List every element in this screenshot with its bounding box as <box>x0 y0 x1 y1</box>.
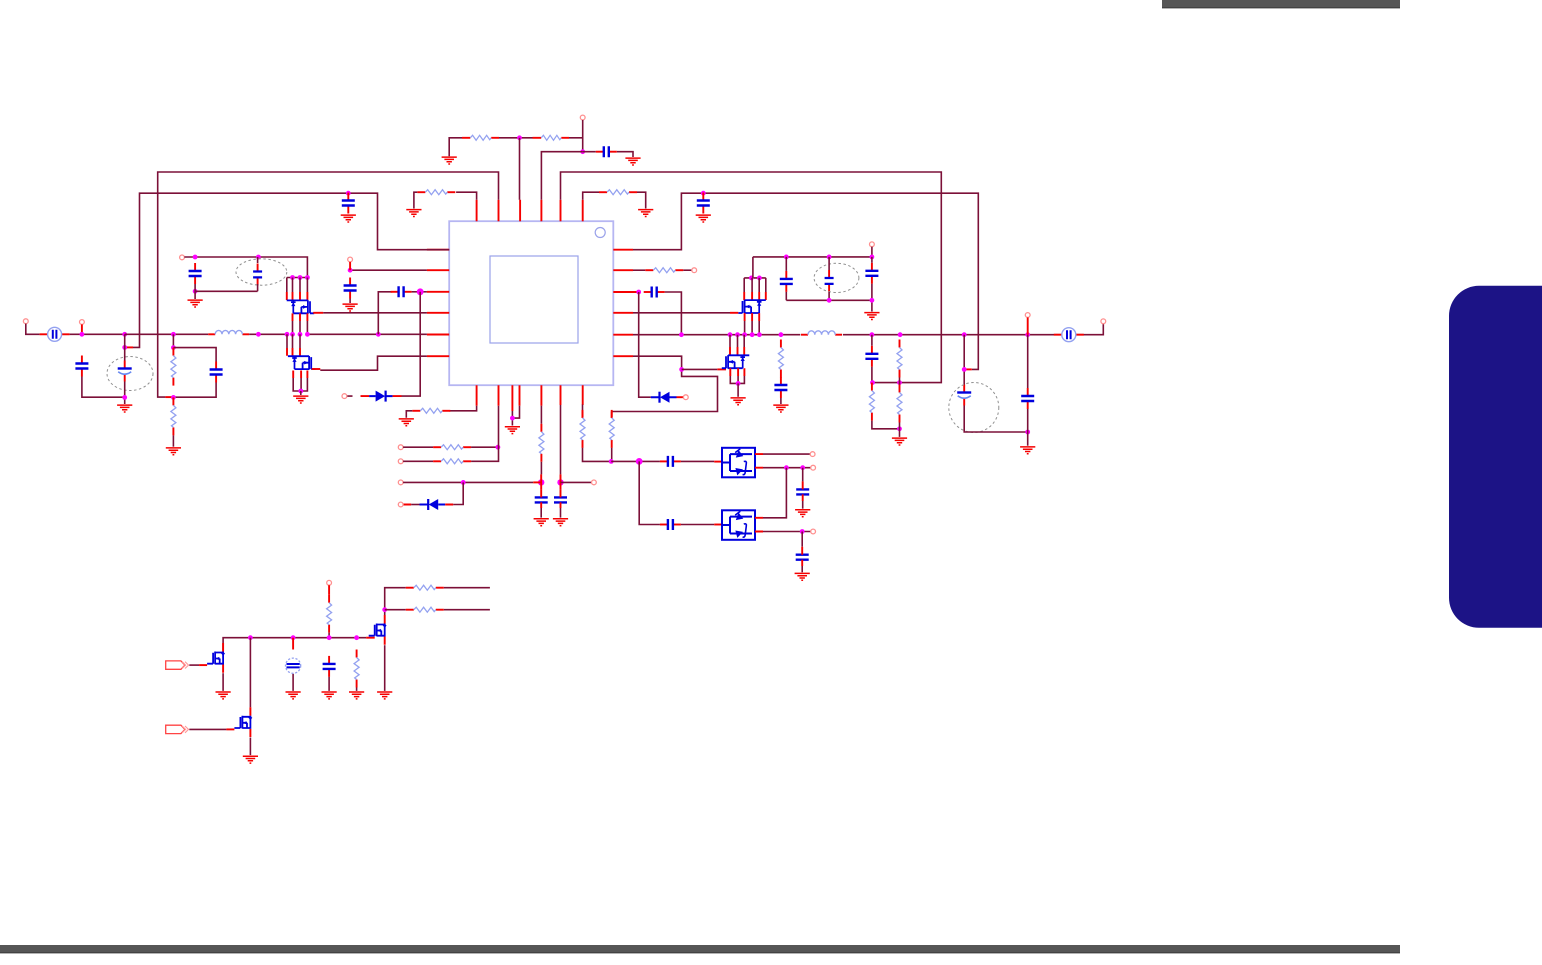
pin stub csym top stub <box>292 638 294 650</box>
wire gate line QHR <box>633 312 730 314</box>
wire bus1 right <box>561 172 942 383</box>
ground G-lowL <box>293 396 308 403</box>
wire pin2R t lead <box>683 269 692 271</box>
resistor R rc2 <box>171 397 176 435</box>
wire bl rail <box>223 638 366 651</box>
pin stub D sense stubs <box>403 504 453 506</box>
pin stub pin2L term lead <box>349 262 351 270</box>
wire x611 link <box>611 448 613 462</box>
wire tr3 leads <box>871 257 873 300</box>
top gray bar <box>1162 0 1400 8</box>
wire pin2L gnd lead <box>349 299 351 304</box>
wire outc2 link <box>1027 409 1029 446</box>
wire gate line QHL <box>323 312 427 314</box>
junction dots tr top <box>784 255 874 260</box>
capacitor C pin2L <box>344 278 357 299</box>
capacitor C pin541 <box>535 497 548 502</box>
wire outcap bottom <box>964 406 1027 433</box>
wire bootL right <box>412 291 427 293</box>
wire lowL gnd drop <box>300 391 302 395</box>
wire pin to cap row <box>541 152 582 200</box>
terminal input sense <box>80 320 85 325</box>
wire rbl gnd lead <box>356 688 358 691</box>
diode D sense <box>420 499 446 510</box>
IC U1 body <box>449 221 613 385</box>
junction lowL src node <box>298 389 303 394</box>
wire L to fets <box>249 333 427 335</box>
wire bus1 left <box>158 172 499 397</box>
wire gate line QLL <box>320 356 427 370</box>
terminal input jack <box>23 319 28 324</box>
ground G-csym <box>286 692 301 699</box>
terminal T output <box>1101 319 1106 324</box>
terminal T pin560 <box>592 480 597 485</box>
junction dots drain bus L <box>290 275 310 280</box>
junction sel node <box>636 458 643 465</box>
wire rc2 to gnd <box>172 435 174 446</box>
wire csel4 gnd lead <box>801 566 803 572</box>
pin stub c560 stubs <box>560 489 562 508</box>
dual mosfet Q sel2 <box>722 510 755 540</box>
junction dots out nodes <box>870 332 1031 337</box>
junction rc top node <box>171 345 176 350</box>
pin stub fet4 gate stub <box>366 637 375 639</box>
capacitor C sel3 <box>796 489 809 494</box>
pin stub lowR src stubs <box>730 368 744 376</box>
junction out2 node <box>897 380 902 385</box>
capacitor C sel4 <box>796 555 809 560</box>
pin stub bus2R lead <box>964 368 972 370</box>
ground G-fet4 <box>377 692 392 699</box>
junction input node B <box>122 332 127 337</box>
transistor Q en2 <box>234 707 251 737</box>
pin stub gate stub QHR <box>730 312 738 314</box>
wire rbl2 row <box>385 609 406 611</box>
polarized capacitor C out big <box>957 385 971 406</box>
component XT1 <box>286 658 301 673</box>
junction bootL pin node <box>417 288 424 295</box>
pin stub src stubs QHL <box>293 313 308 321</box>
pin stub src stubs QHR <box>745 313 760 321</box>
capacitor C bus2L <box>342 193 355 214</box>
wire pin560 term lead <box>561 481 592 483</box>
pin stub R lead <box>462 137 569 139</box>
feedthrough FB input <box>40 327 70 341</box>
wire rbl1 line <box>444 587 490 589</box>
pin stub box1 right stubs <box>755 454 763 468</box>
ground G-snub <box>773 405 788 412</box>
pin stub bus2L lead <box>125 346 133 348</box>
transistor Q low right <box>722 355 750 369</box>
terminal T boot rail <box>870 242 875 247</box>
wire drain verts L <box>287 278 308 293</box>
wire tr top row <box>753 247 872 278</box>
pin stub box2 right stubs <box>755 518 763 532</box>
wire bootL drop <box>412 292 420 396</box>
pin stub gate stub QLL <box>312 368 321 370</box>
wire top divider row <box>449 138 583 157</box>
wire rc tap down <box>172 334 174 348</box>
terminal T sel1 <box>810 452 815 457</box>
wire src verts QHL <box>293 321 308 334</box>
wire pin6R <box>612 356 718 411</box>
wire rbl2 line <box>444 609 490 611</box>
resistor R pin476b <box>412 408 450 413</box>
inductor L out <box>801 331 842 335</box>
navy side tab <box>1449 286 1542 628</box>
capacitor C tant left <box>253 264 262 286</box>
capacitor C out1 <box>865 346 878 367</box>
wire cbl gnd lead <box>328 677 330 691</box>
wire bootR right <box>665 292 682 335</box>
wire input to node <box>70 333 125 335</box>
wire tant leads <box>257 257 259 291</box>
wire rc loop top <box>173 348 216 362</box>
wire src verts QHR <box>745 321 760 335</box>
pin stub D right stub <box>677 396 684 398</box>
port P ctrl1 <box>166 661 189 669</box>
ground G-out <box>892 438 907 445</box>
wire out2 link <box>899 378 901 385</box>
inductor L input <box>208 330 249 334</box>
capacitor C snub <box>774 377 787 398</box>
pin stub box1 left stub <box>714 461 722 463</box>
wire sense3 drop <box>453 482 463 504</box>
junction sense1 node <box>496 445 501 450</box>
wire sense3 <box>403 481 533 483</box>
pin stub out sense drop <box>1027 317 1029 334</box>
pin stub lowR drain stubs <box>730 347 744 355</box>
wire outc2 top <box>1027 335 1029 388</box>
wire fet4 src <box>384 645 386 691</box>
port P ctrl2 <box>166 725 189 733</box>
terminal vcc left <box>180 255 185 260</box>
wire pin582 drop <box>582 405 584 412</box>
junction pin3R node <box>636 290 641 295</box>
component outline bulk cap outline <box>107 357 153 391</box>
pin stub D left stubs <box>361 395 402 397</box>
wire C in1 bottom <box>82 377 125 398</box>
wire lowR gnd drop <box>737 383 739 396</box>
wire en link <box>328 633 330 638</box>
ground G-ctop <box>625 158 640 165</box>
terminal T sel3 <box>811 529 816 534</box>
wire tr bottom row <box>786 300 872 311</box>
wire sense1 <box>403 446 433 448</box>
ground G-r582 <box>638 210 653 217</box>
ground G-r476 <box>406 210 421 217</box>
ground G-tr <box>864 313 879 320</box>
resistor R pin541 <box>539 424 544 462</box>
resistor R top-left <box>470 135 491 140</box>
pin stub U1 top pins <box>477 200 583 221</box>
wire c560 gnd lead <box>560 508 562 518</box>
wire pin476 bottom <box>449 406 476 411</box>
junction lowR src node <box>736 381 741 386</box>
wire dsense term lead <box>411 504 419 506</box>
wire box2 out2 <box>763 531 811 533</box>
terminal T sel2 <box>811 465 816 470</box>
dual mosfet Q sel1 <box>722 448 755 478</box>
capacitor C top <box>596 146 617 157</box>
ground G-560 <box>553 519 568 526</box>
pin stub csel3 stubs <box>802 481 804 501</box>
junction terminal node <box>580 149 585 154</box>
pin stub lowR gate stub <box>717 368 726 370</box>
pin stub pin541 stub <box>540 474 542 489</box>
capacitor C tr1 <box>780 271 793 292</box>
terminal T sense3 <box>398 480 403 485</box>
capacitor C boot left <box>391 286 412 297</box>
junction bus2L cap tap <box>346 191 351 196</box>
resistor R bl1 <box>406 585 444 590</box>
wire R to gnd right <box>637 192 646 208</box>
resistor R pin2R <box>645 268 683 273</box>
pin stub lowL src stubs <box>293 371 307 379</box>
ground G-byp <box>188 300 203 307</box>
pin stub csel4 stubs <box>801 547 803 566</box>
wire left top row <box>184 257 307 278</box>
junction outcap tap <box>962 367 967 372</box>
junction top divider tap <box>517 135 522 140</box>
terminal T sense4 <box>398 502 403 507</box>
resistor R x611 <box>609 410 614 448</box>
junction out1 node <box>870 380 875 385</box>
resistor R rc1 <box>171 348 176 386</box>
pin stub pin582 stub2 <box>582 412 584 418</box>
wire pin498 drop <box>471 406 498 462</box>
wire bulk top <box>124 334 126 360</box>
wire pin476b gnd <box>406 411 412 418</box>
wire link boxes <box>763 468 786 518</box>
junction outc2 node <box>1025 430 1030 435</box>
resistor R sense2 <box>433 459 471 464</box>
terminal T en <box>327 580 332 585</box>
capacitor C bus2R <box>697 193 710 214</box>
transistor Q low left <box>288 356 316 370</box>
pin stub pin541 lead <box>533 481 541 483</box>
wire fet5 src <box>249 738 251 756</box>
wire outcap top <box>963 335 965 385</box>
resistor R bl2 <box>406 607 444 612</box>
wire byp link <box>195 284 258 299</box>
polarized capacitor C bulk in <box>118 361 132 382</box>
wire cap row right <box>583 152 633 157</box>
junction pin512 node <box>510 416 515 421</box>
ground G-fet5 <box>243 756 258 763</box>
junction input node A <box>80 332 85 337</box>
junction sel out a <box>784 465 789 470</box>
ground G-bus2L <box>341 215 356 222</box>
wire main to L <box>125 333 209 335</box>
wire sel2 to box <box>681 524 714 526</box>
ground G-fet3 <box>216 692 231 699</box>
ground G-sel4 <box>795 573 810 580</box>
wire c541 gnd lead <box>540 508 542 518</box>
pin stub c541 stubs <box>540 489 542 508</box>
junction sel out c <box>800 529 805 534</box>
transistor Q en1 <box>207 643 224 673</box>
ground G-topdiv <box>442 157 457 164</box>
wire fet4 drain <box>385 588 406 615</box>
capacitor C sel2 <box>660 519 681 530</box>
terminal T sense1 <box>398 445 403 450</box>
wire R to gnd <box>414 192 417 208</box>
wire pin476 up-left <box>456 192 477 200</box>
ground G-476b <box>399 419 414 426</box>
capacitor C byp left <box>189 263 202 284</box>
wire pin582 up-right <box>583 192 599 200</box>
wire bus2 right <box>633 193 978 369</box>
terminal VDD input <box>580 115 585 120</box>
junction fet4 drain node <box>382 607 387 612</box>
wire drain verts R <box>744 278 766 292</box>
junction dots phase L <box>285 332 381 337</box>
wire out3 gnd lead <box>899 423 901 437</box>
junction pin2L node <box>348 268 353 273</box>
wire snub link <box>780 378 782 405</box>
resistor R out2 <box>897 340 902 378</box>
wire fet3 src <box>222 673 224 691</box>
wire pin2R <box>633 269 645 271</box>
wire drain bus L <box>287 277 308 279</box>
junction ltr b <box>256 255 261 260</box>
junction dots phase R <box>679 332 783 337</box>
wire sel drop <box>639 461 660 524</box>
pin stub drain stubs R <box>744 292 766 300</box>
resistor R pin582 <box>599 190 637 195</box>
wire diode L term lead <box>347 395 412 397</box>
junction sel out b <box>800 465 805 470</box>
pin stub sense drop <box>81 324 83 334</box>
wire tap to U1 pin <box>519 138 521 200</box>
wire sel top row <box>611 460 660 462</box>
pin stub pin560 stub <box>560 474 562 489</box>
capacitor C out2 <box>1021 388 1034 409</box>
junction ltr a <box>193 255 198 260</box>
terminal T out sense <box>1025 313 1030 318</box>
junction bus2R cap tap <box>701 191 706 196</box>
terminal T diode left <box>342 394 347 399</box>
resistor R pin476 <box>417 190 455 195</box>
wire bus2 left <box>133 193 449 347</box>
wire sense1 b <box>471 446 498 448</box>
ground G-sel3 <box>795 510 810 517</box>
terminal T pin2R <box>692 268 697 273</box>
wire pin3R drop <box>639 292 651 397</box>
ground G-rbl <box>349 692 364 699</box>
junction pin541 node <box>538 479 544 485</box>
junction sense3 node <box>461 480 466 485</box>
wire pin541 drop <box>540 406 542 424</box>
transistor Q high right <box>738 300 766 314</box>
wire lowR src verts <box>730 376 744 383</box>
capacitor C tr3 <box>865 263 878 284</box>
junction out gnd node <box>897 426 902 431</box>
wire input drop <box>26 324 40 335</box>
junction dots tr bottom <box>827 298 875 303</box>
wire tr2 leads <box>828 257 830 300</box>
resistor R out1 <box>869 383 874 421</box>
resistor R out3 <box>897 385 902 423</box>
capacitor C in1 <box>75 356 88 377</box>
resistor R top-right <box>541 135 561 140</box>
junction dots drain bus R <box>749 276 762 281</box>
wire bulk bottom <box>124 382 126 405</box>
wire out1 to gnd row <box>872 421 900 429</box>
diode D left <box>369 391 393 402</box>
pin stub box2 left stub <box>714 524 722 526</box>
ground G-512 <box>505 427 520 434</box>
ground G-cbl <box>322 692 337 699</box>
junction rc mid node <box>171 395 176 400</box>
wire sel1 to box <box>681 460 714 462</box>
wire box1 out2 <box>763 467 811 469</box>
diode D right <box>651 392 677 403</box>
pin stub p2 stub <box>226 728 234 730</box>
wire fet5 drain <box>249 638 251 708</box>
junction bulk gnd node <box>122 395 127 400</box>
junction byp gnd node <box>193 289 198 294</box>
wire lowR drain verts <box>730 335 744 347</box>
wire tr1 leads <box>785 257 787 300</box>
resistor R bl <box>354 650 359 688</box>
pin stub bus1L lead <box>165 396 173 398</box>
pin stub en drop <box>328 585 330 595</box>
resistor R en <box>327 595 332 633</box>
junction L out node <box>256 332 261 337</box>
ground G-bus2R <box>696 215 711 222</box>
wire drain bus R <box>744 277 766 279</box>
capacitor C tr2 <box>825 270 834 292</box>
wire lowR gate line <box>682 368 718 370</box>
wire sense2 <box>403 460 433 462</box>
wire rc loop bottom <box>175 383 216 398</box>
ground G-rc <box>166 448 181 455</box>
wire p1 line <box>189 664 199 666</box>
transistor Q en3 <box>369 615 386 645</box>
feedthrough FB out <box>1054 328 1084 342</box>
capacitor C sel1 <box>660 456 681 467</box>
wire csel3 gnd lead <box>802 501 804 509</box>
pin stub U1 right pins <box>613 250 638 357</box>
terminal T pin2L <box>348 257 353 262</box>
pin stub x611 stub <box>611 412 613 418</box>
ground G-out2 <box>1020 447 1035 454</box>
wire pin582 corner <box>583 448 612 462</box>
wire bootL left <box>378 292 392 335</box>
pin stub gate stub QHL <box>313 312 323 314</box>
resistor R pin582 <box>580 410 585 448</box>
outline big cap <box>949 383 999 433</box>
terminal T sense2 <box>398 459 403 464</box>
capacitor C bl <box>323 656 336 677</box>
junction lowR gate node <box>679 367 684 372</box>
junction bus2L node <box>122 345 127 350</box>
pin stub drain stubs L <box>287 292 308 300</box>
pin stub p1 stub <box>199 664 207 666</box>
capacitor C pin560 <box>554 497 567 502</box>
junction x611 node <box>609 459 614 464</box>
component outline tant outline <box>236 259 287 285</box>
wire c sel3 lead <box>802 468 804 482</box>
ground G-lowR <box>731 398 746 405</box>
junction main RC tap <box>171 332 176 337</box>
wire pin512 drop <box>512 406 519 426</box>
junction pin560 node <box>557 479 563 485</box>
capacitor C rc <box>210 362 223 383</box>
wire pin2L <box>350 269 427 271</box>
